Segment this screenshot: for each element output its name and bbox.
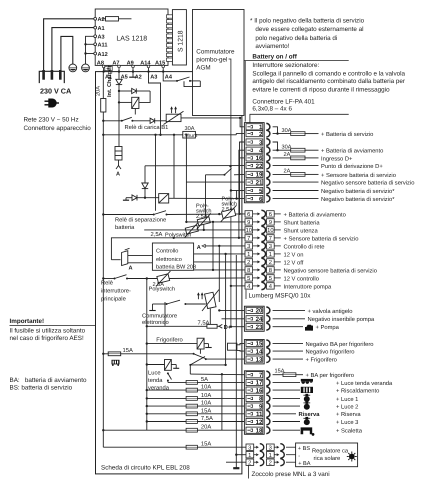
svg-text:Negativo BA per frigorifero: Negativo BA per frigorifero xyxy=(306,341,374,348)
pin 2 LF-PA xyxy=(246,130,270,137)
wire solar pin1 xyxy=(236,454,246,456)
pin 14 frigorifero xyxy=(246,348,270,355)
svg-text:antigelo del riscaldamento com: antigelo del riscaldamento combinato dal… xyxy=(252,78,405,85)
svg-text:3: 3 xyxy=(269,243,272,250)
svg-text:2: 2 xyxy=(248,459,251,466)
svg-text:11: 11 xyxy=(256,411,263,418)
wire pin7 fuse 15A xyxy=(273,374,283,376)
pin 10 Lumberg xyxy=(245,226,281,233)
svg-text:Negativo sensore batteria di s: Negativo sensore batteria di servizio xyxy=(284,267,377,274)
svg-text:A2: A2 xyxy=(98,17,105,23)
svg-text:10A: 10A xyxy=(201,384,211,391)
plug icon xyxy=(45,99,60,107)
A5 zener + charge relay circuit xyxy=(102,72,166,147)
svg-text:A14: A14 xyxy=(140,60,151,66)
svg-text:7: 7 xyxy=(269,236,272,242)
svg-text:Il fusibile si utilizza soltan: Il fusibile si utilizza soltanto xyxy=(10,327,86,334)
svg-text:+ Batteria di servizio: + Batteria di servizio xyxy=(321,131,373,138)
svg-text:A4: A4 xyxy=(165,75,173,81)
svg-text:A1: A1 xyxy=(98,26,105,32)
svg-text:12: 12 xyxy=(256,419,263,426)
svg-text:Regolatore ca: Regolatore ca xyxy=(312,448,349,455)
separation relay cluster xyxy=(102,134,245,216)
svg-text:Battery on / off: Battery on / off xyxy=(252,54,297,61)
svg-text:3: 3 xyxy=(248,444,251,451)
svg-text:BS: batteria di servizio: BS: batteria di servizio xyxy=(10,385,73,392)
svg-text:5A: 5A xyxy=(201,377,208,383)
svg-text:Commutatore: Commutatore xyxy=(142,312,177,319)
wire pin24 xyxy=(273,318,305,320)
charger output regulator xyxy=(164,106,241,124)
svg-text:veranda: veranda xyxy=(148,385,170,392)
ground diode into node xyxy=(126,197,132,199)
wire pin1 left xyxy=(194,253,245,255)
svg-text:19: 19 xyxy=(256,172,263,179)
connector 230V plug xyxy=(39,71,64,82)
svg-text:5: 5 xyxy=(269,276,272,282)
wire pin2 left xyxy=(194,261,245,263)
contact below xyxy=(167,372,169,374)
svg-text:elettronico: elettronico xyxy=(142,319,169,326)
pin 16 LF-PA xyxy=(246,155,270,162)
connector luci block xyxy=(244,371,264,435)
svg-text:Negativo frigorifero: Negativo frigorifero xyxy=(306,349,355,356)
svg-text:1: 1 xyxy=(269,252,272,258)
svg-text:+ Luce 1: + Luce 1 xyxy=(336,397,358,403)
svg-text:3: 3 xyxy=(247,243,250,250)
svg-text:17: 17 xyxy=(256,380,263,387)
pin 21 LF-PA xyxy=(246,179,270,186)
svg-text:20: 20 xyxy=(256,308,263,315)
svg-text:Int. Charger: Int. Charger xyxy=(106,65,113,97)
svg-text:16: 16 xyxy=(256,387,263,394)
fuse 5A circuito luci xyxy=(168,381,186,383)
svg-text:A3: A3 xyxy=(150,75,157,81)
svg-text:2A: 2A xyxy=(284,169,291,175)
svg-text:Negativo batteria di servizio*: Negativo batteria di servizio* xyxy=(321,188,395,195)
svg-text:16: 16 xyxy=(256,155,263,162)
wire pin5 to v1 xyxy=(231,190,245,192)
svg-text:2,5A: 2,5A xyxy=(151,231,163,238)
fuse 10A circuito luci xyxy=(147,389,186,391)
pin 13 frigorifero xyxy=(246,356,270,363)
pin 19 LF-PA xyxy=(246,171,270,178)
wire pin3 left / net A xyxy=(205,245,245,247)
wire pin16 stub xyxy=(240,157,244,159)
svg-text:* Il polo negativo della batte: * Il polo negativo della batteria di ser… xyxy=(250,18,365,25)
frigo contact xyxy=(121,353,194,355)
wire pins 3-4 tie xyxy=(273,142,278,150)
wire pin14 xyxy=(273,350,303,352)
svg-text:13: 13 xyxy=(256,356,263,363)
A2 ground stub xyxy=(129,72,137,78)
LAS bottom pins to board xyxy=(104,67,164,71)
svg-text:+ BA per frigorifero: + BA per frigorifero xyxy=(306,372,355,379)
pin 8 luci xyxy=(246,395,270,402)
svg-text:avviamento!: avviamento! xyxy=(255,43,289,50)
svg-text:10: 10 xyxy=(267,227,273,234)
wire pin5 xyxy=(273,190,319,192)
pin 4 LF-PA xyxy=(246,147,270,154)
wire pin15 xyxy=(273,342,303,344)
svg-text:6: 6 xyxy=(247,211,250,218)
LAS pin open circles left edge xyxy=(94,17,97,55)
pin 24 valvola/pompa xyxy=(246,315,270,322)
fuse 20A circuito luci xyxy=(103,429,186,431)
svg-text:+ Riscaldamento: + Riscaldamento xyxy=(336,388,379,395)
fuse 10A circuito luci xyxy=(147,397,186,399)
pin 17 luci xyxy=(246,379,270,386)
svg-text:Connettore apparecchio: Connettore apparecchio xyxy=(24,125,92,132)
pin 7 luci xyxy=(246,371,270,378)
svg-text:15: 15 xyxy=(256,341,263,348)
svg-text:Rete 230 V ~ 50 Hz: Rete 230 V ~ 50 Hz xyxy=(24,116,79,123)
wire charger to pin1 xyxy=(240,118,244,127)
svg-text:30A: 30A xyxy=(185,126,195,132)
pin 7 Lumberg xyxy=(245,234,281,241)
15A AES fuse xyxy=(102,352,121,356)
regulator with arrows xyxy=(197,290,219,328)
luce tenda veranda relay xyxy=(146,360,180,383)
svg-text:A7: A7 xyxy=(112,60,119,66)
svg-text:A3: A3 xyxy=(98,35,105,41)
ground PE terminal right xyxy=(82,64,90,72)
svg-text:Controllo di rete: Controllo di rete xyxy=(284,243,325,250)
wire pin13 xyxy=(273,358,303,360)
pin 15 frigorifero xyxy=(246,340,270,347)
svg-text:A: A xyxy=(116,172,120,178)
svg-text:1: 1 xyxy=(247,252,250,258)
svg-text:9: 9 xyxy=(269,219,272,226)
svg-text:Punto di derivazione D+: Punto di derivazione D+ xyxy=(321,163,383,170)
svg-text:3: 3 xyxy=(259,139,263,146)
wire 230V PE to left earth xyxy=(61,36,73,71)
wire pin8 left / BW bottom xyxy=(194,269,245,271)
svg-text:2: 2 xyxy=(259,131,263,138)
pin 16 luci xyxy=(246,387,270,394)
pin 8 Lumberg xyxy=(245,266,281,273)
wire pin23 + pompa icon xyxy=(273,326,303,328)
svg-text:24: 24 xyxy=(256,316,263,323)
pin 18 luci xyxy=(246,427,270,434)
charge contact on bus line y=120.8 xyxy=(103,120,121,122)
svg-text:3: 3 xyxy=(269,444,272,451)
wire pin16 + heater icon xyxy=(273,389,300,391)
svg-text:Negativo batteria di servizio*: Negativo batteria di servizio* xyxy=(321,196,395,203)
wire pin21 left xyxy=(186,181,244,183)
wire 2,5A polyswitch feed xyxy=(111,237,245,260)
wire pin18 + scaletta icon xyxy=(273,429,300,431)
solar pin 1 left xyxy=(246,451,296,458)
sun icon xyxy=(347,452,357,462)
regolatore carica solare box xyxy=(296,443,358,467)
connector frigorifero block xyxy=(244,340,264,364)
svg-text:7: 7 xyxy=(259,372,263,379)
BW208 box xyxy=(152,243,193,270)
fuse 10A circuito luci xyxy=(147,405,186,407)
svg-text:A8: A8 xyxy=(97,60,104,66)
svg-text:30A: 30A xyxy=(282,128,292,134)
svg-text:Connettore LF-PA 401: Connettore LF-PA 401 xyxy=(252,98,315,105)
svg-text:rica solare: rica solare xyxy=(314,455,341,462)
svg-text:Relè di carica B1: Relè di carica B1 xyxy=(125,124,169,131)
svg-text:2A: 2A xyxy=(284,152,291,158)
svg-text:9: 9 xyxy=(259,403,263,410)
svg-text:12 V off: 12 V off xyxy=(284,259,304,266)
svg-text:Negativo inseribile pompa: Negativo inseribile pompa xyxy=(308,316,375,323)
svg-text:+ Luce 3: + Luce 3 xyxy=(336,419,358,426)
svg-text:+ BA: + BA xyxy=(298,461,311,467)
wire pin4 down xyxy=(239,150,245,238)
svg-text:21: 21 xyxy=(256,179,263,186)
svg-text:+ Sensore batteria di servizio: + Sensore batteria di servizio xyxy=(284,235,359,242)
svg-text:8: 8 xyxy=(269,267,272,274)
svg-text:15A: 15A xyxy=(123,348,133,354)
svg-text:+ Batteria di avviamento: + Batteria di avviamento xyxy=(284,211,346,218)
svg-text:6: 6 xyxy=(259,196,263,203)
zener on D+ derivation drop xyxy=(144,166,146,183)
7,5A fuse D+ xyxy=(146,324,223,328)
svg-text:deve essere collegato esternam: deve essere collegato esternamente al xyxy=(255,26,363,33)
wire pin4 left xyxy=(231,285,245,287)
wire pin9 + lamp icon xyxy=(273,405,300,407)
flyback diode loop xyxy=(119,90,132,92)
commutatore elettronico switch xyxy=(149,300,206,310)
svg-text:batteria BW 208: batteria BW 208 xyxy=(156,264,196,271)
svg-text:A11: A11 xyxy=(98,43,108,49)
A4 switch to commutatore xyxy=(163,72,200,87)
svg-text:principale: principale xyxy=(101,296,126,303)
wire pin6 to coil return xyxy=(174,197,244,199)
svg-text:+ Luce 2: + Luce 2 xyxy=(336,404,358,411)
svg-text:1: 1 xyxy=(269,453,272,459)
pin 5 Lumberg xyxy=(245,274,281,281)
svg-text:14: 14 xyxy=(256,348,263,355)
svg-text:18: 18 xyxy=(256,428,263,435)
main +bus from A1 with 20A fuse Int.Charger xyxy=(101,72,106,448)
wire pin16 fuse 2A ingresso D+ xyxy=(273,157,291,159)
svg-text:2: 2 xyxy=(269,459,272,466)
svg-text:interruttore-: interruttore- xyxy=(101,288,131,295)
svg-text:A9: A9 xyxy=(127,60,134,66)
wire pin2 fuse 30A +BS xyxy=(273,133,291,135)
svg-text:Riserva: Riserva xyxy=(299,411,321,418)
pin 23 valvola/pompa xyxy=(246,323,270,330)
wire solar pin2 xyxy=(226,461,246,463)
svg-text:10A: 10A xyxy=(201,392,211,399)
main relay coil skewed xyxy=(122,248,153,265)
svg-text:Commutatore: Commutatore xyxy=(196,48,235,55)
svg-text:S 1218: S 1218 xyxy=(178,30,185,52)
wires into pompa block xyxy=(219,309,244,311)
wire pin19 fuse 2A sensore xyxy=(273,173,291,175)
svg-text:230 V CA: 230 V CA xyxy=(40,87,71,96)
svg-text:+ Scaletta: + Scaletta xyxy=(336,428,363,435)
svg-text:2: 2 xyxy=(269,259,272,266)
A3 jog down to shunt line xyxy=(149,72,161,135)
wire pin21 xyxy=(273,181,319,183)
wire 230V phase to A2 xyxy=(44,19,96,71)
two up arrows xyxy=(171,107,173,113)
wire pin9 left / shunt batteria xyxy=(186,221,245,223)
svg-text:Scollega il pannello di comand: Scollega il pannello di comando e contro… xyxy=(252,70,405,77)
svg-text:Polyswitch: Polyswitch xyxy=(149,286,175,293)
component near pins 15/14 xyxy=(228,343,237,350)
wire shunt to pin2 xyxy=(236,134,244,135)
svg-text:+ Frigorifero: + Frigorifero xyxy=(306,357,337,364)
svg-text:+ Sensore batteria di servizio: + Sensore batteria di servizio xyxy=(321,172,396,179)
svg-text:Zoccolo prese MNL a 3 vani: Zoccolo prese MNL a 3 vani xyxy=(252,471,330,478)
svg-text:7: 7 xyxy=(247,236,250,242)
svg-text:piombo-gel: piombo-gel xyxy=(196,56,227,63)
node A3-A11-A12 tie xyxy=(86,36,96,64)
Lumberg label xyxy=(245,290,247,299)
leader to connector xyxy=(250,114,349,122)
svg-text:Interruttore pompa: Interruttore pompa xyxy=(284,284,332,290)
wire pin10 left / shunt utenza xyxy=(144,229,245,231)
zoccolo MNL label xyxy=(247,466,249,479)
svg-text:5: 5 xyxy=(247,276,250,282)
svg-text:20A: 20A xyxy=(201,424,211,431)
wire 230V neutral to A1 xyxy=(52,28,95,71)
S 1218 module xyxy=(172,10,186,65)
main relay contact line y=278.5 xyxy=(102,271,173,286)
svg-text:Importante!: Importante! xyxy=(10,318,45,325)
svg-text:Luce: Luce xyxy=(148,370,161,376)
svg-text:Frigorifero: Frigorifero xyxy=(156,337,182,344)
svg-text:D+: D+ xyxy=(224,325,232,331)
wire pin12 + lamp icon xyxy=(273,421,300,423)
svg-text:+ Luce tenda veranda: + Luce tenda veranda xyxy=(336,380,393,387)
pin 6 LF-PA xyxy=(246,195,270,202)
svg-text:AGM: AGM xyxy=(196,64,210,71)
plus mark box at A8 xyxy=(105,66,112,70)
board EBL 208 xyxy=(96,72,242,474)
svg-text:20A: 20A xyxy=(96,86,102,96)
series element feeding net A xyxy=(115,147,122,170)
pin 2 Lumberg xyxy=(245,258,281,265)
svg-text:Controllo: Controllo xyxy=(156,248,178,255)
solar pin 3 left xyxy=(246,444,296,451)
svg-text:Interruttore sezionatore:: Interruttore sezionatore: xyxy=(252,62,319,69)
feed line y=214.5 with contact xyxy=(103,214,153,216)
relay coil B1 xyxy=(132,97,139,108)
svg-text:BA: batteria di avviamento: BA: batteria di avviamento xyxy=(10,377,87,384)
wire pin20 xyxy=(273,309,305,311)
svg-text:elettronico: elettronico xyxy=(156,256,182,263)
svg-text:Lumberg MSFQ/0 10x: Lumberg MSFQ/0 10x xyxy=(249,292,312,299)
svg-text:LAS 1218: LAS 1218 xyxy=(116,36,147,43)
fuse 15A solare xyxy=(103,446,186,448)
svg-text:9: 9 xyxy=(247,219,250,226)
shunt 30A row xyxy=(102,72,236,138)
svg-text:batteria: batteria xyxy=(115,224,135,231)
svg-text:15A: 15A xyxy=(201,442,211,448)
frigo icon xyxy=(112,360,120,366)
svg-text:6: 6 xyxy=(269,211,272,218)
svg-text:4: 4 xyxy=(259,148,263,155)
svg-text:Negativo sensore batteria di s: Negativo sensore batteria di servizio xyxy=(321,180,414,187)
svg-text:Relè di separazione: Relè di separazione xyxy=(115,216,166,223)
pin 20 valvola/pompa xyxy=(246,307,270,314)
pin 9 luci xyxy=(246,403,270,410)
svg-text:Ingresso D+: Ingresso D+ xyxy=(321,156,353,162)
svg-text:evitare le correnti di riposo: evitare le correnti di riposo durante il… xyxy=(252,86,390,93)
svg-text:A: A xyxy=(197,245,201,251)
negative bus to chassis ground xyxy=(235,255,237,468)
pin 3 LF-PA xyxy=(246,139,270,146)
svg-text:10A: 10A xyxy=(201,400,211,407)
wire pins 1-2 tie xyxy=(273,127,278,134)
svg-text:15A: 15A xyxy=(201,408,211,414)
fuse 15A circuito luci xyxy=(147,413,186,415)
svg-text:Scheda di circuito KPL EBL 208: Scheda di circuito KPL EBL 208 xyxy=(101,465,190,472)
wire pin4 fuse 30A +BA xyxy=(273,149,291,151)
svg-text:+ BS: + BS xyxy=(298,446,311,452)
svg-text:+ Pompa: + Pompa xyxy=(316,325,340,331)
pin 6 Lumberg xyxy=(245,210,281,217)
svg-text:10: 10 xyxy=(246,227,252,234)
svg-text:8: 8 xyxy=(259,396,263,403)
pin 9 Lumberg xyxy=(245,218,281,225)
svg-text:23: 23 xyxy=(256,324,263,331)
fuse 7,5A circuito luci xyxy=(147,421,186,423)
pin 22 LF-PA xyxy=(246,162,270,169)
svg-text:Shunt utenza: Shunt utenza xyxy=(284,227,319,234)
LAS 1218 charger box xyxy=(95,9,168,65)
connector pompa block xyxy=(244,306,264,331)
pin 1 LF-PA xyxy=(246,123,270,130)
svg-text:-: - xyxy=(298,453,300,459)
S1218 comb contacts xyxy=(167,15,173,62)
pin 11 luci xyxy=(246,410,270,417)
switched bus down to fuses xyxy=(146,277,246,430)
wire pin22 xyxy=(273,165,319,167)
pin 4 Lumberg xyxy=(245,282,281,289)
upper contact to row7 feed xyxy=(189,357,244,431)
svg-text:22: 22 xyxy=(256,163,263,170)
svg-text:8: 8 xyxy=(247,267,250,274)
svg-text:15A: 15A xyxy=(275,369,285,375)
wire pin17 + awning icon xyxy=(273,381,300,383)
svg-text:7,5A: 7,5A xyxy=(201,416,213,422)
svg-text:tenda: tenda xyxy=(148,377,163,384)
svg-text:A12: A12 xyxy=(98,52,108,58)
wire pin3 to +BA net xyxy=(240,142,245,214)
svg-text:30A: 30A xyxy=(282,145,292,151)
svg-text:7,5A: 7,5A xyxy=(198,320,210,326)
svg-text:nel caso di frigorifero AES!: nel caso di frigorifero AES! xyxy=(10,335,84,342)
svg-text:12 V controllo: 12 V controllo xyxy=(284,275,319,282)
svg-text:5: 5 xyxy=(259,188,263,195)
pin A2 fuse xyxy=(106,17,119,21)
svg-text:Relè: Relè xyxy=(101,280,113,287)
solar pin 2 left xyxy=(246,459,296,466)
ground PE terminal left xyxy=(69,64,77,72)
connector block LF-PA 401 xyxy=(244,123,264,203)
wire pin11 riserva xyxy=(273,413,296,415)
polyswitch A above wire xyxy=(182,222,202,238)
wire pin22 D+ derivation xyxy=(145,165,244,167)
wire pin8 + lamp icon xyxy=(273,397,300,399)
svg-text:polo negativo della batteria d: polo negativo della batteria di xyxy=(255,35,337,42)
svg-text:A: A xyxy=(129,265,133,271)
svg-text:6,3x0,8 – 4x 6: 6,3x0,8 – 4x 6 xyxy=(252,106,292,113)
svg-text:2: 2 xyxy=(247,259,250,266)
svg-text:+ Riserva: + Riserva xyxy=(336,411,361,418)
separation relay coil xyxy=(159,194,169,203)
svg-text:+ Batteria di avviamento: + Batteria di avviamento xyxy=(321,148,383,155)
